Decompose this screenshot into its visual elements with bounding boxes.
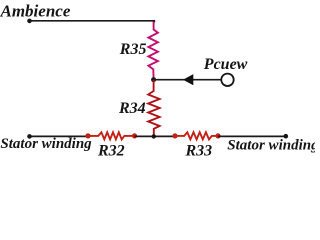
node R33 left terminal red dot <box>172 133 177 138</box>
resistor R34 body (red zigzag) <box>148 80 159 137</box>
svg-text:Stator winding: Stator winding <box>227 137 315 153</box>
node R32 left terminal red dot <box>85 133 90 138</box>
wire bottom right segment (R33 to stator winding) <box>218 135 286 137</box>
terminal circle Pcuew <box>221 74 233 86</box>
arrow pointing left on Pcuew branch <box>183 74 193 85</box>
node stator winding right end dot <box>284 134 289 139</box>
node stator winding left end dot <box>27 134 32 139</box>
svg-text:R34: R34 <box>118 100 146 117</box>
svg-text:R35: R35 <box>119 41 147 58</box>
resistor R35 body (magenta zigzag) <box>148 22 158 80</box>
node Ambience junction dot <box>27 19 32 24</box>
resistor R33 body (red zigzag horizontal) <box>175 132 218 139</box>
wire branch to Pcuew terminal <box>154 79 222 81</box>
svg-text:Ambience: Ambience <box>0 1 71 20</box>
node junction dot between R35 and R34 <box>151 77 156 82</box>
wire top horizontal from Ambience to R35 <box>30 21 155 23</box>
svg-text:R33: R33 <box>185 142 213 159</box>
svg-text:R32: R32 <box>97 142 125 159</box>
wire bottom middle segment (R32 to R33) <box>135 135 176 137</box>
node bottom junction dot under R34 <box>152 134 156 138</box>
node R33 right terminal red dot <box>215 133 220 138</box>
svg-text:Stator winding: Stator winding <box>0 136 92 152</box>
node R32 right terminal red dot <box>132 133 137 138</box>
resistor R32 body (red zigzag horizontal) <box>88 132 135 139</box>
wire bottom left segment (stator winding to R32) <box>30 135 90 137</box>
svg-text:Pcuew: Pcuew <box>203 56 248 73</box>
